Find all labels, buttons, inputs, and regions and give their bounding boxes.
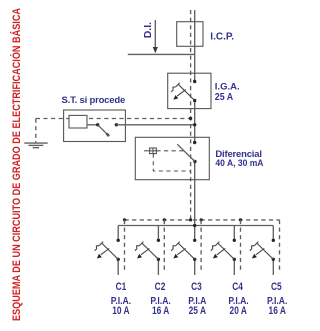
svg-text:16 A: 16 A	[269, 305, 286, 317]
wire: neutral drops	[125, 220, 280, 272]
breaker C3	[171, 239, 196, 261]
breaker C4	[211, 239, 236, 261]
I.G.A. box	[168, 73, 211, 108]
svg-text:25 A: 25 A	[189, 305, 206, 317]
wire: phase drops	[118, 226, 273, 241]
labels P.I.A.	[111, 295, 288, 306]
node: phase bus junction	[193, 224, 196, 227]
test device	[144, 148, 156, 154]
breaker C1	[95, 239, 120, 261]
bus: phase solid	[118, 225, 273, 227]
svg-text:40 A, 30 mA: 40 A, 30 mA	[215, 157, 264, 168]
svg-text:C5: C5	[271, 281, 282, 293]
D.I. arrow	[153, 20, 158, 53]
breaker I.G.A.	[171, 80, 196, 102]
svg-text:C3: C3	[191, 281, 202, 293]
svg-text:I.C.P.: I.C.P.	[210, 31, 234, 42]
svg-text:16 A: 16 A	[152, 305, 169, 317]
Diferencial box	[135, 137, 209, 179]
svg-text:D.I.: D.I.	[142, 22, 154, 38]
breaker C2	[135, 239, 160, 261]
wire: SPD to switch	[87, 124, 98, 126]
svg-text:ESQUEMA DE UN CIRCUITO DE GRAD: ESQUEMA DE UN CIRCUITO DE GRADO DE ELECT…	[10, 8, 23, 321]
breaker C5	[250, 239, 275, 261]
switch S.T.	[96, 123, 118, 136]
svg-text:25 A: 25 A	[215, 92, 233, 104]
wire: linkage dashed L to neutral	[153, 154, 190, 171]
svg-text:10 A: 10 A	[112, 305, 129, 317]
node: junction on neutral	[189, 117, 192, 120]
S.T. box	[64, 110, 126, 142]
labels amps	[112, 305, 286, 317]
wire: neutral (dashed) vertical from top to bus	[190, 10, 192, 220]
svg-text:C1: C1	[116, 281, 127, 293]
svg-text:S.T. si procede: S.T. si procede	[62, 95, 126, 106]
wire: phase solid vertical Diferencial bottom through bus to C3 contact	[194, 162, 196, 241]
labels C1-C5	[116, 281, 283, 293]
I.C.P. box	[177, 22, 203, 47]
wire: dashed down to earth	[35, 119, 37, 143]
wire: linkage dashed to blade	[156, 150, 183, 152]
wire: S.T. to phase	[116, 124, 194, 126]
node: junction on phase	[193, 123, 196, 126]
svg-text:C4: C4	[232, 281, 243, 293]
wire: phase solid vertical top segment to IGA top contact	[194, 10, 196, 82]
ground	[24, 143, 47, 148]
wire: dashed branch to S.T. / earth	[36, 118, 191, 120]
wire: phase solid vertical IGA bottom to Diferencial top contact	[194, 101, 196, 143]
wire: D.I. boundary line	[128, 53, 195, 55]
bus: neutral dashed	[125, 219, 280, 221]
switch Diferencial	[177, 141, 196, 163]
svg-text:20 A: 20 A	[230, 305, 247, 317]
surge protector	[69, 115, 87, 128]
node: neutral bus junctions	[123, 218, 242, 221]
wire: circuit tails	[118, 259, 273, 275]
svg-text:C2: C2	[155, 281, 166, 293]
